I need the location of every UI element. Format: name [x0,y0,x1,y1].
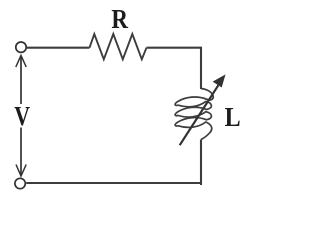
wire top horizontal right [147,48,201,49]
terminal circle top-left [16,42,26,52]
svg-text:L: L [225,101,241,132]
wire top horizontal left [27,47,90,49]
resistor R1 [90,34,147,59]
wire right vertical lower [200,140,201,185]
terminal circle bottom-left [15,178,25,188]
inductor L1 coil [175,89,213,140]
V source arrow up [16,56,26,105]
svg-text:V: V [14,100,30,131]
V source arrow down [16,128,26,177]
wire bottom horizontal [26,182,202,184]
inductor arrow (variable) [180,75,225,145]
svg-text:R: R [111,3,129,34]
wire right vertical upper [200,47,202,89]
